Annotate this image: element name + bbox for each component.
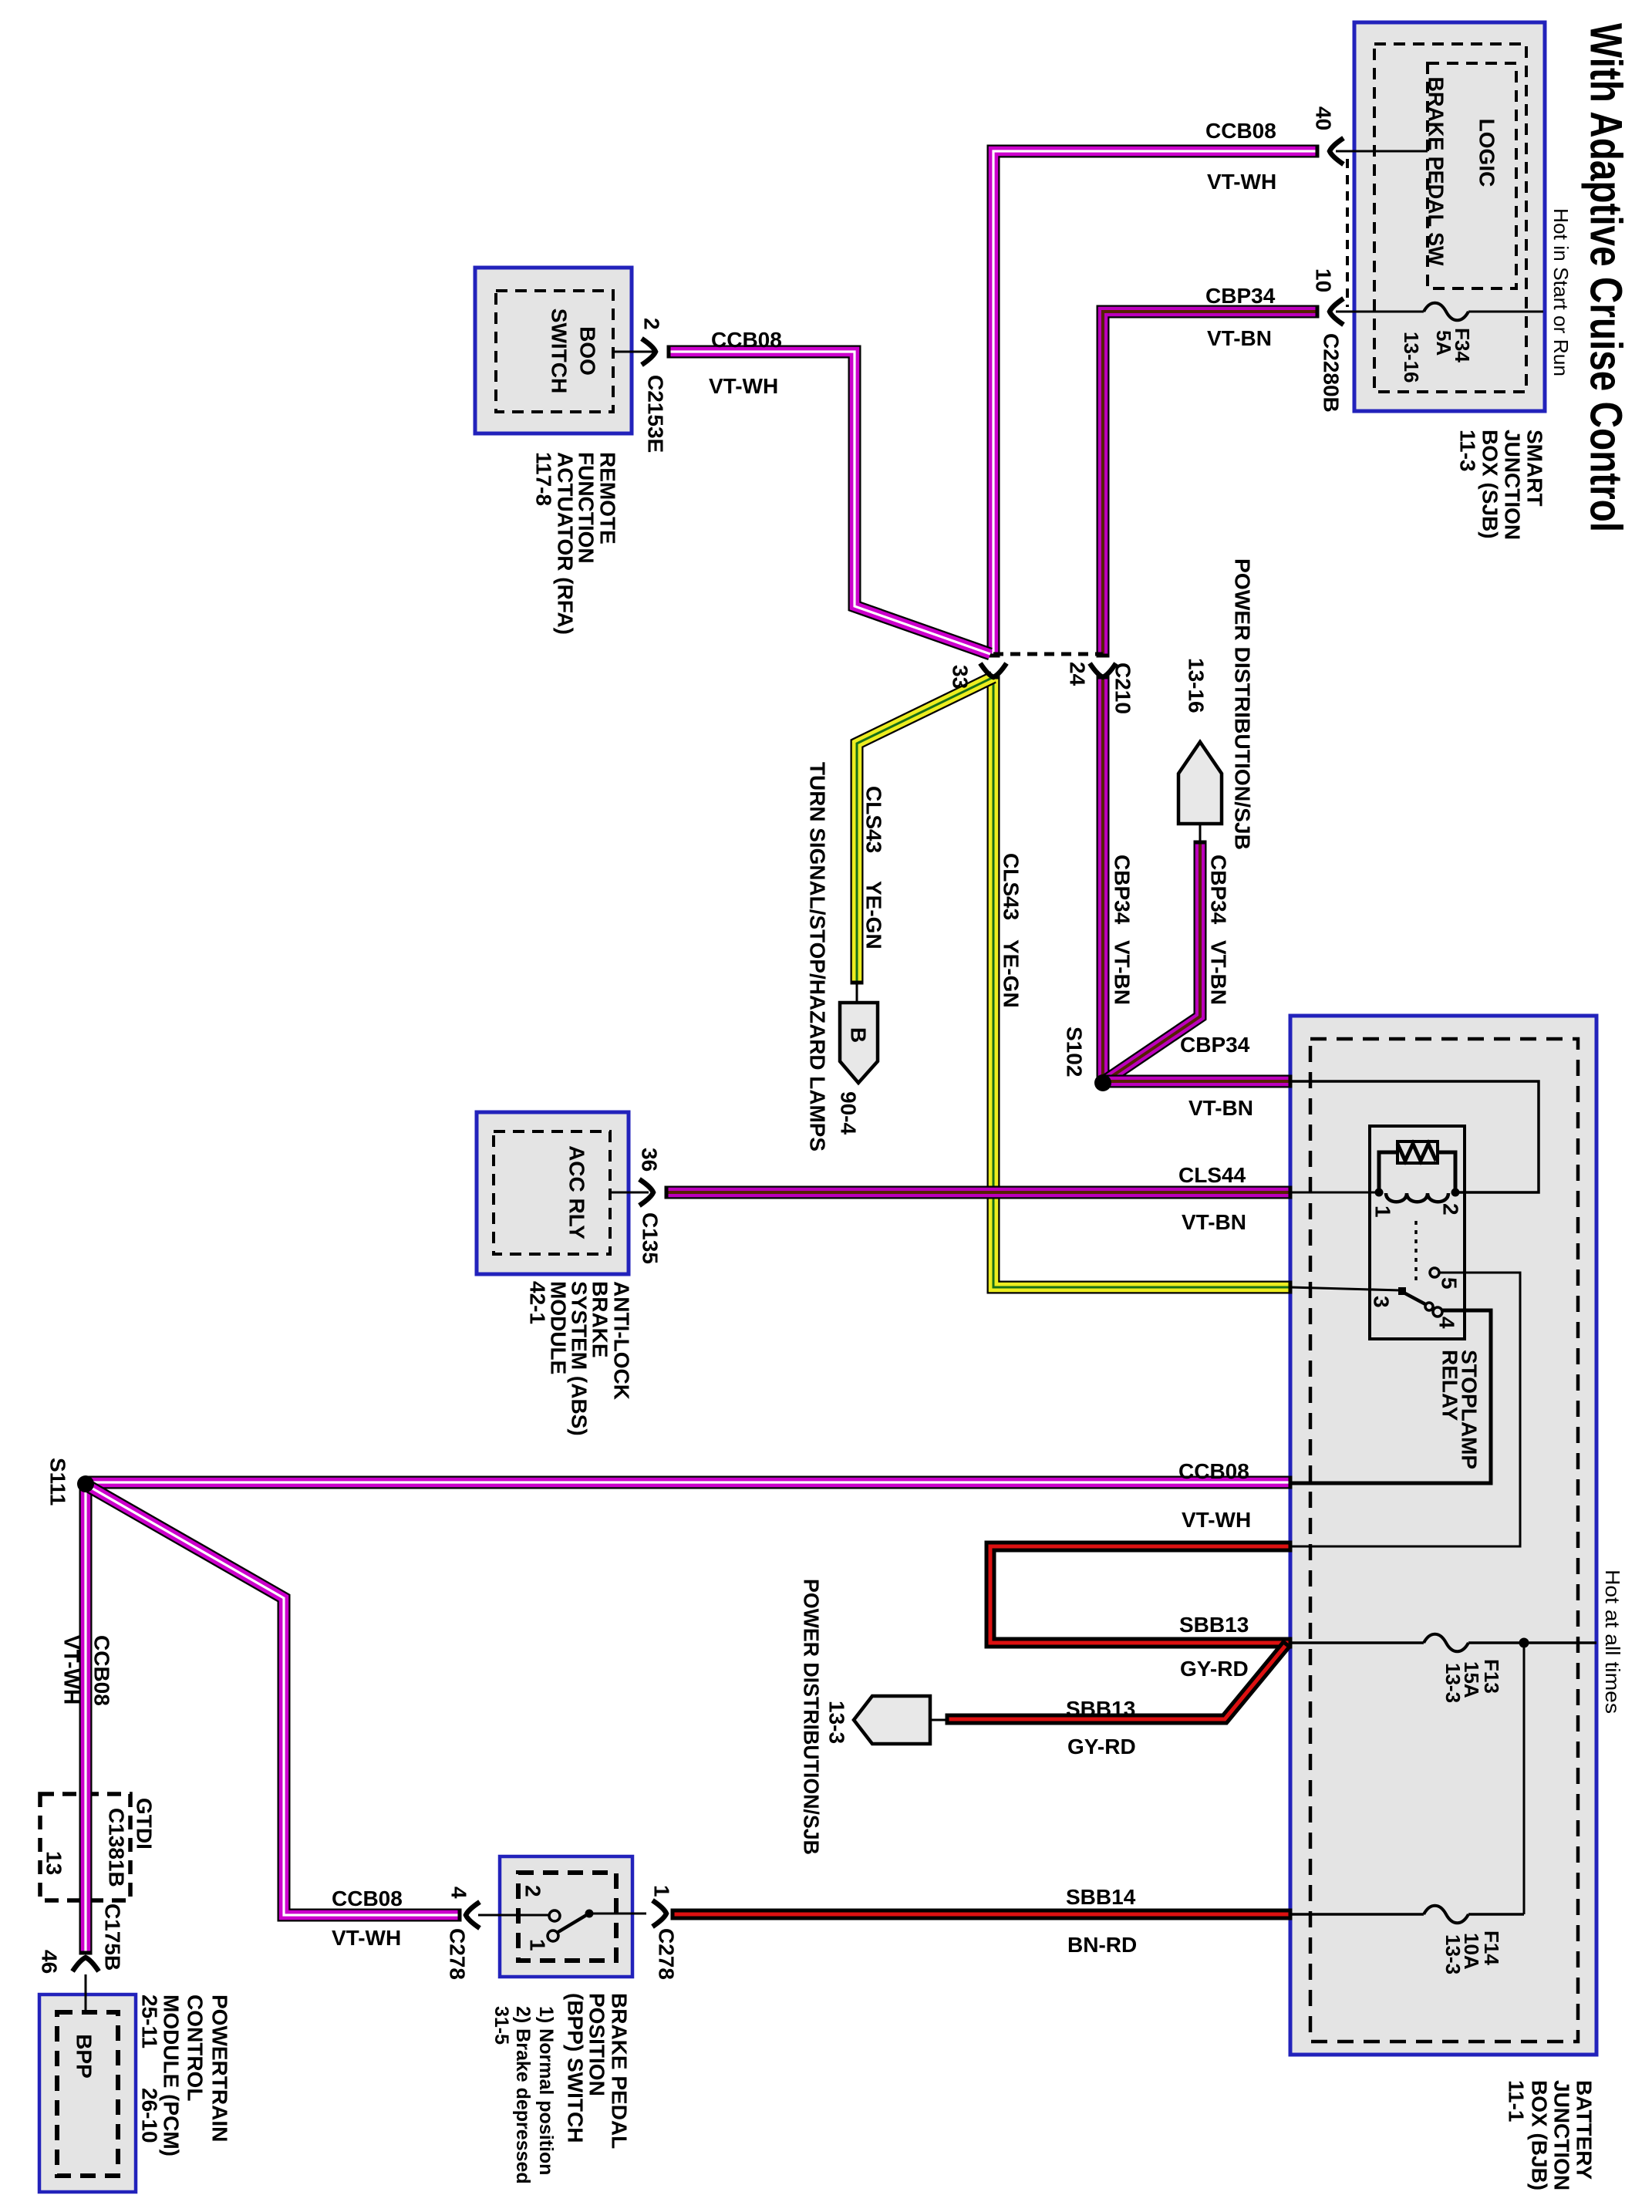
ACC RLY box (ABS module) xyxy=(477,1112,629,1274)
svg-text:11-3: 11-3 xyxy=(1456,430,1480,472)
svg-text:GY-RD: GY-RD xyxy=(1067,1735,1136,1758)
svg-text:CBP34: CBP34 xyxy=(1180,1033,1250,1057)
relay pin4 contact xyxy=(1433,1307,1442,1317)
svg-text:1: 1 xyxy=(650,1885,674,1897)
svg-text:5A: 5A xyxy=(1432,330,1455,356)
svg-text:SBB14: SBB14 xyxy=(1066,1885,1136,1909)
relay coil xyxy=(1386,1193,1448,1202)
off-page connector B 90-4 TURN SIGNAL LAMPS xyxy=(840,1003,878,1083)
SJB outer dashed boundary xyxy=(1374,44,1526,392)
svg-text:SMART: SMART xyxy=(1523,430,1547,507)
svg-text:BRAKE PEDAL: BRAKE PEDAL xyxy=(608,1993,632,2149)
relay blade end circle xyxy=(1425,1303,1433,1310)
svg-text:2: 2 xyxy=(640,318,664,330)
svg-text:33: 33 xyxy=(949,665,973,689)
svg-text:13-3: 13-3 xyxy=(1441,1663,1465,1703)
svg-text:BRAKE PEDAL SW: BRAKE PEDAL SW xyxy=(1424,77,1448,267)
svg-text:BPP: BPP xyxy=(72,2034,96,2079)
BOO SWITCH box xyxy=(475,268,632,433)
junction dot relay pin1 xyxy=(1375,1189,1384,1197)
svg-text:4: 4 xyxy=(1435,1317,1459,1329)
svg-text:CONTROL: CONTROL xyxy=(184,1995,207,2101)
svg-text:VT-WH: VT-WH xyxy=(1207,170,1276,194)
svg-text:C2153E: C2153E xyxy=(644,375,668,453)
svg-text:1: 1 xyxy=(526,1939,550,1951)
svg-text:CBP34: CBP34 xyxy=(1111,855,1134,925)
svg-text:SBB13: SBB13 xyxy=(1066,1697,1135,1721)
svg-text:B: B xyxy=(847,1027,871,1043)
off-page connector 13-3 POWER DISTRIBUTION/SJB xyxy=(854,1696,930,1744)
svg-text:90-4: 90-4 xyxy=(837,1091,861,1135)
svg-text:Hot in Start or Run: Hot in Start or Run xyxy=(1549,208,1573,376)
connector arrow C210 pin 33 xyxy=(980,663,1006,677)
C2280B dashed connector line xyxy=(1346,159,1349,307)
svg-text:VT-BN: VT-BN xyxy=(1111,940,1134,1005)
svg-text:BOX (SJB): BOX (SJB) xyxy=(1478,430,1502,539)
F13-F14 link xyxy=(1523,1643,1526,1914)
svg-text:VT-BN: VT-BN xyxy=(1188,1096,1253,1120)
svg-text:ACTUATOR (RFA): ACTUATOR (RFA) xyxy=(554,452,578,635)
svg-text:40: 40 xyxy=(1312,106,1336,130)
B connector stem xyxy=(856,983,858,1003)
C210 dashed connector line xyxy=(993,652,1103,656)
ACC RLY inner dashed xyxy=(494,1131,610,1254)
svg-text:Hot at all times: Hot at all times xyxy=(1601,1570,1624,1714)
svg-text:46: 46 xyxy=(38,1950,62,1974)
svg-text:C278: C278 xyxy=(446,1928,470,1980)
junction dot S102 splice xyxy=(1094,1074,1111,1091)
SJB pin40 lead xyxy=(1336,150,1428,153)
fuse symbol F13 xyxy=(1424,1634,1468,1652)
PCM BPP dashed box xyxy=(57,2012,118,2176)
junction dot S111 splice xyxy=(77,1475,94,1492)
svg-text:36: 36 xyxy=(638,1148,662,1172)
svg-text:2) Brake depressed: 2) Brake depressed xyxy=(512,2006,534,2184)
svg-text:CLS43: CLS43 xyxy=(862,786,886,853)
wire CBP34 VT-BN from SJB pin10 xyxy=(1097,305,1318,656)
svg-text:POWER DISTRIBUTION/SJB: POWER DISTRIBUTION/SJB xyxy=(1231,558,1255,850)
svg-text:BATTERY: BATTERY xyxy=(1573,2080,1596,2180)
svg-text:GTDI: GTDI xyxy=(133,1798,157,1850)
ABS pin36 lead xyxy=(610,1192,649,1194)
wire CCB08 VT-WH S111 to BPP xyxy=(87,1485,460,1922)
svg-text:POWERTRAIN: POWERTRAIN xyxy=(208,1995,232,2142)
svg-text:25-11: 25-11 xyxy=(138,1995,162,2048)
PCM pin46 lead xyxy=(85,1974,87,2012)
BPP switch box xyxy=(500,1856,632,1977)
svg-text:SWITCH: SWITCH xyxy=(548,309,571,393)
wire CLS43 YE-GN branch to B xyxy=(851,677,994,983)
wire CCB08 VT-WH S111 down to PCM xyxy=(79,1485,93,1953)
svg-text:2: 2 xyxy=(521,1885,545,1897)
off-page connector 13-16 POWER DISTRIBUTION/SJB xyxy=(1178,742,1222,824)
relay pin4 lead to CCB08 xyxy=(1290,1310,1491,1483)
wire SBB13 GY-RD U-loop xyxy=(990,1541,1290,1649)
junction dot F13 junction xyxy=(1519,1638,1529,1648)
svg-text:BN-RD: BN-RD xyxy=(1067,1933,1137,1957)
BPP blade xyxy=(557,1914,588,1933)
CLS43 lead to relay pin3 xyxy=(1290,1287,1401,1290)
BJB box (BATTERY JUNCTION BOX) xyxy=(1290,1016,1596,2055)
F14 lead right xyxy=(1468,1913,1524,1916)
F13 lead right xyxy=(1468,1641,1596,1644)
connector arrow BPP pin 1 xyxy=(652,1900,666,1927)
svg-text:MODULE (PCM): MODULE (PCM) xyxy=(160,1995,184,2156)
relay pin3 contact xyxy=(1398,1287,1406,1295)
svg-text:CLS43: CLS43 xyxy=(1000,853,1023,920)
connector arrow C210 pin 24 xyxy=(1090,663,1116,677)
BJB CBP34 lead to relay pin2 xyxy=(1290,1081,1539,1192)
BPP inner dashed xyxy=(518,1873,616,1961)
svg-text:1: 1 xyxy=(1371,1205,1395,1218)
svg-text:CCB08: CCB08 xyxy=(332,1887,403,1910)
svg-text:JUNCTION: JUNCTION xyxy=(1501,430,1525,540)
svg-text:42-1: 42-1 xyxy=(526,1281,550,1324)
svg-text:13-3: 13-3 xyxy=(825,1701,849,1744)
svg-text:C135: C135 xyxy=(639,1212,662,1264)
svg-text:2: 2 xyxy=(1439,1203,1463,1216)
svg-text:VT-BN: VT-BN xyxy=(1207,326,1272,350)
connector arrow BPP pin 4 xyxy=(466,1902,480,1928)
svg-text:(BPP) SWITCH: (BPP) SWITCH xyxy=(564,1993,588,2143)
wire SBB13 GY-RD to 13-3 pentagon xyxy=(947,1640,1291,1725)
svg-text:1) Normal position: 1) Normal position xyxy=(535,2006,557,2175)
CLS44 lead to relay pin1 xyxy=(1290,1192,1376,1194)
13-3 pentagon stem xyxy=(930,1719,949,1721)
svg-text:GY-RD: GY-RD xyxy=(1180,1657,1249,1681)
13-16 pentagon stem xyxy=(1199,824,1202,842)
svg-text:POWER DISTRIBUTION/SJB: POWER DISTRIBUTION/SJB xyxy=(800,1579,824,1855)
relay pin5 lead to SBB13 xyxy=(1290,1273,1520,1546)
connector arrow BOO pin 2 xyxy=(642,339,656,365)
svg-text:VT-WH: VT-WH xyxy=(709,374,778,398)
svg-text:13-3: 13-3 xyxy=(1441,1934,1465,1974)
svg-text:LOGIC: LOGIC xyxy=(1475,119,1499,187)
svg-text:ANTI-LOCK: ANTI-LOCK xyxy=(610,1281,634,1400)
svg-text:CCB08: CCB08 xyxy=(90,1635,114,1706)
svg-text:31-5: 31-5 xyxy=(491,2006,512,2045)
svg-text:ACC RLY: ACC RLY xyxy=(565,1145,589,1239)
svg-text:VT-WH: VT-WH xyxy=(332,1926,401,1950)
connector arrow SJB pin 10 xyxy=(1330,298,1344,325)
relay resistor body xyxy=(1397,1141,1438,1163)
relay blade xyxy=(1405,1293,1427,1305)
stoplamp relay box xyxy=(1370,1126,1465,1339)
svg-text:CCB08: CCB08 xyxy=(1205,119,1276,143)
svg-text:C1381B: C1381B xyxy=(105,1808,129,1887)
svg-text:RELAY: RELAY xyxy=(1438,1350,1462,1421)
fuse symbol F34 xyxy=(1424,303,1468,321)
svg-text:BOX (BJB): BOX (BJB) xyxy=(1528,2080,1552,2190)
svg-text:TURN SIGNAL/STOP/HAZARD LAMPS: TURN SIGNAL/STOP/HAZARD LAMPS xyxy=(806,762,830,1152)
svg-text:S111: S111 xyxy=(46,1458,70,1506)
BPP pin4 lead xyxy=(478,1914,548,1917)
svg-text:C278: C278 xyxy=(655,1928,679,1980)
svg-text:YE-GN: YE-GN xyxy=(1000,939,1023,1008)
relay resistor zigzag xyxy=(1397,1144,1436,1161)
svg-text:3: 3 xyxy=(1370,1296,1394,1308)
F14 lead left xyxy=(1290,1913,1424,1916)
svg-text:13-16: 13-16 xyxy=(1400,332,1423,383)
junction dot BPP blade pivot xyxy=(585,1910,594,1918)
SJB pin10 lead left xyxy=(1336,311,1424,313)
svg-text:CBP34: CBP34 xyxy=(1205,284,1276,308)
svg-text:With Adaptive Cruise Control: With Adaptive Cruise Control xyxy=(1581,23,1631,532)
svg-text:13: 13 xyxy=(42,1851,66,1875)
BOO pin2 lead xyxy=(613,351,654,353)
wire CCB08 VT-WH S111 to BJB xyxy=(86,1476,1290,1489)
wire SBB14 BN-RD xyxy=(673,1909,1290,1920)
wire CCB08 VT-WH from SJB pin40 xyxy=(987,145,1318,656)
svg-text:11-1: 11-1 xyxy=(1505,2080,1529,2123)
svg-text:YE-GN: YE-GN xyxy=(862,881,886,949)
wire CBP34 VT-BN below C210 xyxy=(1097,677,1110,1083)
svg-text:VT-WH: VT-WH xyxy=(60,1635,84,1705)
svg-text:S102: S102 xyxy=(1063,1027,1087,1077)
svg-text:VT-BN: VT-BN xyxy=(1182,1210,1246,1234)
svg-text:POSITION: POSITION xyxy=(585,1993,609,2096)
svg-text:C175B: C175B xyxy=(101,1903,125,1971)
svg-text:BOO: BOO xyxy=(576,326,600,376)
wire CLS44 VT-BN ABS to BJB xyxy=(666,1186,1290,1199)
fuse symbol F14 xyxy=(1424,1906,1468,1924)
svg-text:24: 24 xyxy=(1066,662,1090,686)
wire CBP34 VT-BN from 13-16 pentagon xyxy=(1104,842,1207,1081)
svg-text:C210: C210 xyxy=(1111,663,1135,714)
relay resistor loop right xyxy=(1438,1152,1455,1192)
connector arrow PCM pin 46 xyxy=(72,1957,99,1971)
svg-text:4: 4 xyxy=(447,1887,471,1899)
F13 lead left xyxy=(1290,1641,1424,1644)
svg-text:CCB08: CCB08 xyxy=(1178,1459,1249,1483)
svg-text:5: 5 xyxy=(1438,1277,1462,1290)
svg-text:JUNCTION: JUNCTION xyxy=(1550,2080,1574,2190)
relay pin5 contact xyxy=(1430,1268,1439,1277)
svg-text:10: 10 xyxy=(1312,268,1336,292)
BPP pin1 lead xyxy=(592,1913,646,1915)
connector arrow ABS pin 36 xyxy=(639,1179,653,1205)
wire CCB08 VT-WH from BOO SWITCH xyxy=(669,346,990,655)
SJB box (SMART JUNCTION BOX) xyxy=(1354,22,1545,411)
wire CBP34 VT-BN S102 to BJB xyxy=(1103,1075,1290,1088)
relay resistor loop left xyxy=(1379,1152,1397,1192)
BOO SWITCH inner dashed xyxy=(496,291,613,412)
svg-text:CBP34: CBP34 xyxy=(1207,855,1231,925)
svg-text:26-10: 26-10 xyxy=(138,2088,162,2143)
relay coil-contact dotted link xyxy=(1414,1221,1418,1282)
BJB inner dashed boundary xyxy=(1310,1039,1578,2042)
BPP contact 2 xyxy=(549,1910,560,1921)
SJB pin10 lead right xyxy=(1468,311,1543,313)
svg-text:117-8: 117-8 xyxy=(532,452,556,506)
SJB LOGIC/BRAKE PEDAL SW dashed box xyxy=(1428,63,1516,288)
svg-text:VT-WH: VT-WH xyxy=(1182,1508,1251,1532)
svg-text:VT-BN: VT-BN xyxy=(1207,940,1231,1005)
svg-text:REMOTE: REMOTE xyxy=(596,452,620,545)
svg-text:SBB13: SBB13 xyxy=(1179,1613,1249,1637)
GTDI C1381B dashed connector box xyxy=(40,1794,130,1900)
svg-text:C2280B: C2280B xyxy=(1320,333,1344,413)
svg-text:CLS44: CLS44 xyxy=(1178,1163,1246,1187)
svg-text:CCB08: CCB08 xyxy=(711,328,782,352)
PCM box xyxy=(39,1995,136,2192)
connector arrow SJB pin 40 xyxy=(1330,138,1344,164)
junction dot relay pin2 xyxy=(1451,1189,1460,1197)
wire CLS43 YE-GN main xyxy=(987,677,1291,1294)
svg-text:13-16: 13-16 xyxy=(1185,658,1209,713)
BPP contact 1 xyxy=(548,1930,558,1941)
